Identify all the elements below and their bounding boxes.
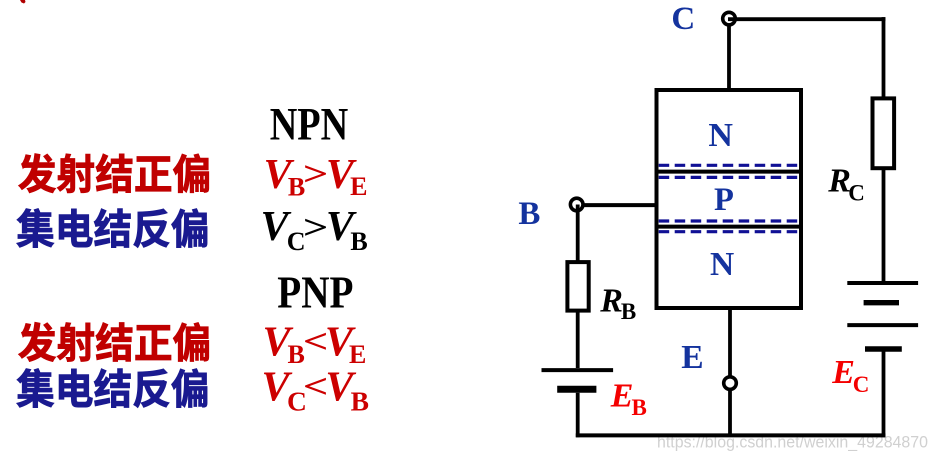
svg-text:>: > bbox=[303, 156, 329, 193]
svg-text:N: N bbox=[710, 246, 734, 283]
svg-text:B: B bbox=[351, 386, 369, 417]
svg-text:C: C bbox=[848, 180, 865, 205]
svg-text:R: R bbox=[599, 282, 623, 319]
svg-text:NPN: NPN bbox=[270, 100, 349, 151]
svg-text:E: E bbox=[681, 339, 703, 376]
svg-text:N: N bbox=[708, 117, 733, 154]
svg-text:PNP: PNP bbox=[277, 267, 353, 318]
svg-text:E: E bbox=[610, 378, 634, 415]
svg-text:E: E bbox=[831, 354, 855, 391]
svg-text:C: C bbox=[853, 372, 870, 397]
svg-text:C: C bbox=[671, 1, 695, 37]
svg-text:B: B bbox=[632, 395, 647, 420]
svg-text:P: P bbox=[714, 182, 734, 218]
svg-text:>: > bbox=[303, 210, 329, 247]
svg-text:B: B bbox=[518, 196, 540, 232]
svg-text:B: B bbox=[621, 299, 636, 324]
svg-text:B: B bbox=[350, 227, 367, 256]
svg-text:E: E bbox=[350, 172, 367, 201]
